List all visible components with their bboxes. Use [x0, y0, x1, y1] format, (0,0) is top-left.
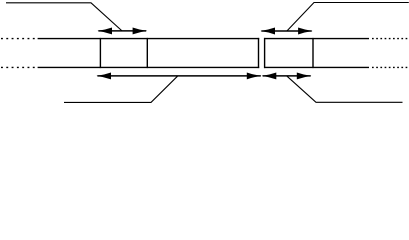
- wire: right frame left edge: [264, 38, 266, 68]
- wire: right frame divider: [312, 38, 314, 68]
- wire: bottom-right leader line (diagonal down from short arrow then horizontal): [287, 76, 403, 102]
- wire: band bottom rail solid, right group: [264, 66, 369, 68]
- node: bottom short dimension arrow under gap and right frame (double headed): [262, 72, 312, 79]
- wire: band top rail solid, right group: [264, 38, 369, 40]
- wire: left frame right edge: [258, 38, 260, 68]
- wire: band top rail solid, left group: [38, 38, 260, 40]
- wire: band bottom rail solid, left group: [38, 66, 260, 68]
- wire: bottom-left leader line (horizontal then diagonal up to long arrow): [64, 76, 178, 102]
- wire: top-right leader line (diagonal up from right dimension arrow then horizontal to edge): [287, 3, 409, 31]
- node: bottom long dimension arrow under left frame (double headed): [96, 72, 261, 79]
- wire: top-left leader line (horizontal then diagonal down to left dimension arrow): [6, 3, 122, 31]
- node: top dimension arrow over cell 1 (double headed): [97, 27, 147, 34]
- wire: cell divider 1: [99, 38, 101, 68]
- node: band bottom rail, dotted continuation at right: [372, 66, 408, 68]
- node: band top rail, dotted continuation at right: [372, 38, 408, 40]
- node: band bottom rail, dotted continuation at left: [1, 66, 37, 68]
- node: top dimension arrow over right frame (double headed): [260, 28, 312, 35]
- wire: cell divider 2: [146, 38, 148, 68]
- node: band top rail, dotted continuation at left: [1, 38, 37, 40]
